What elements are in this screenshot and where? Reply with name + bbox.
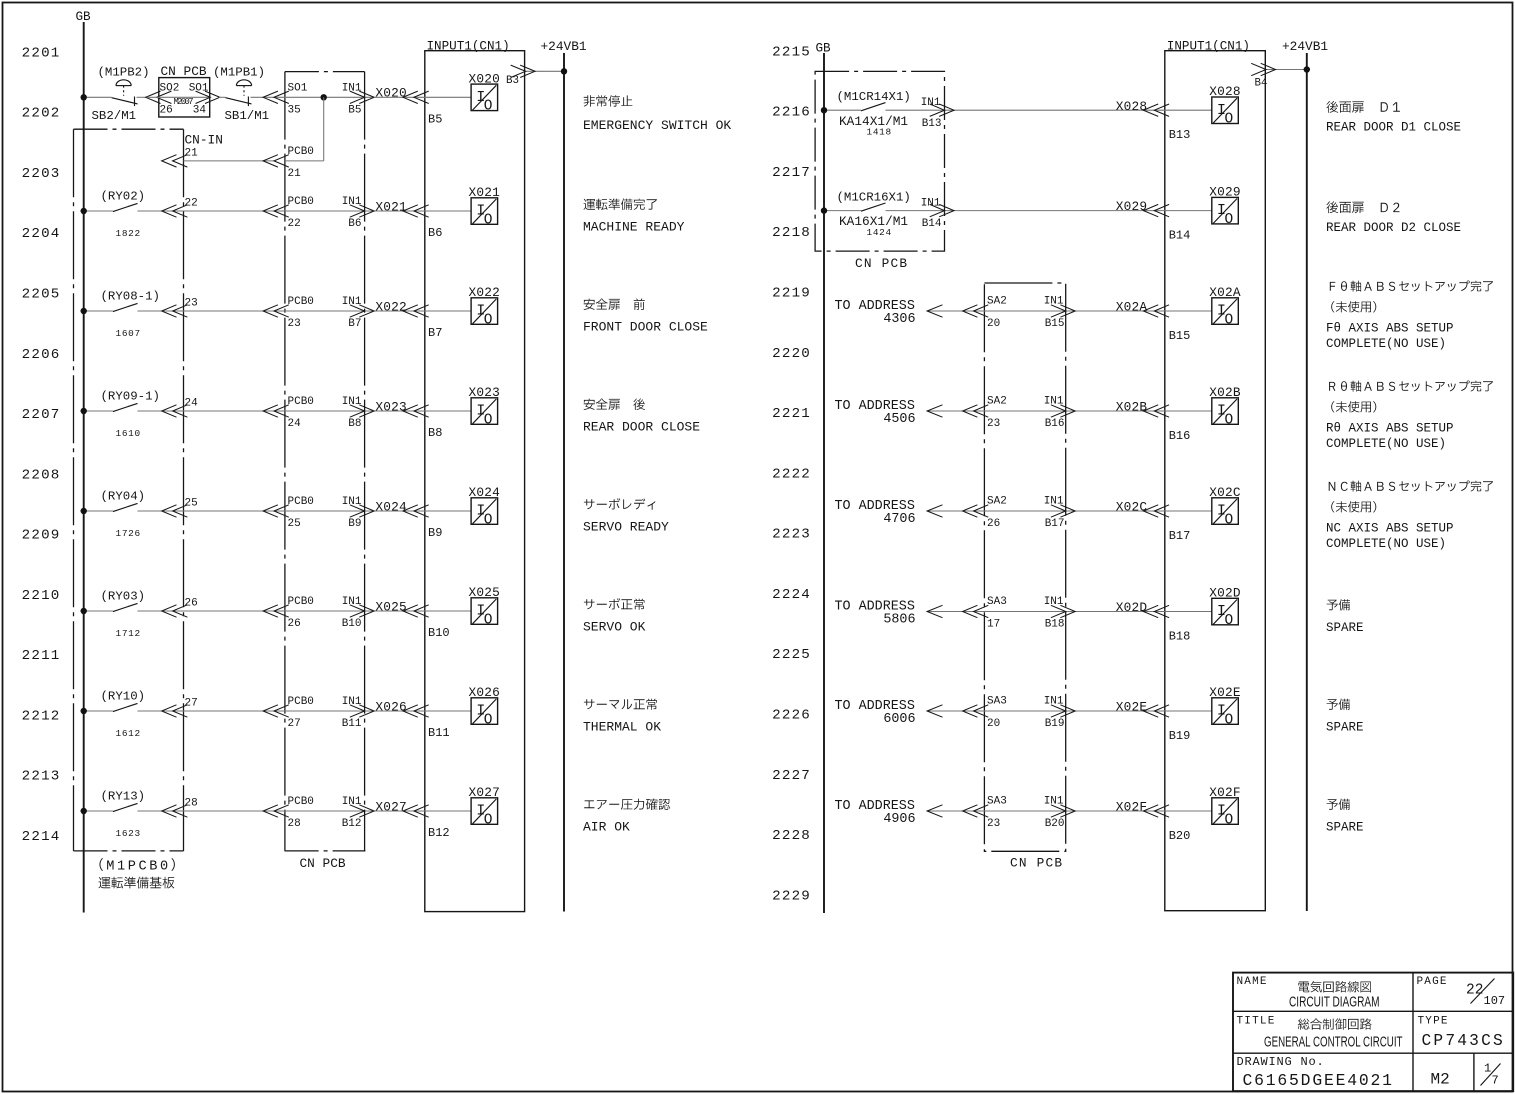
- connector pin PCB0 27: [263, 705, 289, 717]
- svg-text:27: 27: [185, 697, 198, 709]
- relay contact (RY08-1): [113, 303, 138, 311]
- wire X026 run: [138, 710, 472, 712]
- svg-text:IN1: IN1: [342, 496, 362, 508]
- svg-text:26: 26: [288, 618, 301, 630]
- svg-text:25: 25: [185, 497, 198, 509]
- svg-text:X02D: X02D: [1209, 586, 1241, 601]
- svg-text:2210: 2210: [22, 588, 61, 604]
- svg-text:21: 21: [185, 147, 199, 159]
- junction GB X026: [81, 708, 87, 714]
- connector pin B12 (INPUT1 edge): [403, 805, 429, 817]
- connector pin SO1/34 (box right edge): [196, 91, 220, 103]
- label JP X02A (未使用): [1331, 301, 1376, 312]
- svg-text:B11: B11: [428, 726, 450, 740]
- svg-text:2223: 2223: [772, 527, 811, 543]
- svg-text:24: 24: [185, 397, 199, 409]
- svg-text:20: 20: [987, 318, 1000, 330]
- svg-text:B13: B13: [922, 118, 942, 130]
- svg-text:1424: 1424: [867, 227, 892, 238]
- svg-text:4906: 4906: [883, 812, 915, 827]
- svg-text:34: 34: [193, 105, 207, 117]
- svg-text:21: 21: [288, 168, 302, 180]
- svg-text:B17: B17: [1045, 518, 1065, 530]
- connector pin SA2/26: [963, 505, 989, 517]
- svg-text:B15: B15: [1045, 318, 1065, 330]
- svg-text:X027: X027: [469, 785, 501, 800]
- svg-text:NC AXIS ABS SETUP: NC AXIS ABS SETUP: [1326, 522, 1454, 536]
- input point X02D I/O symbol: [1212, 598, 1239, 629]
- svg-text:B6: B6: [428, 226, 442, 240]
- label JP X022: [584, 299, 645, 311]
- PCB block CN PCB right (dash-dot box): [815, 71, 944, 251]
- connector pin B5 (INPUT1 edge): [403, 91, 429, 103]
- input point X024 I/O symbol: [471, 498, 498, 529]
- connector column PCB0 (dash-dot): [284, 72, 286, 851]
- junction GB X023: [81, 408, 87, 414]
- svg-text:X02F: X02F: [1209, 785, 1241, 800]
- svg-text:B7: B7: [348, 318, 361, 330]
- svg-text:X02B: X02B: [1209, 385, 1241, 400]
- input point X029 I/O symbol: [1212, 197, 1239, 228]
- connector pin SA3/17: [963, 605, 989, 617]
- relay contact (M1CR16X1): [861, 203, 886, 211]
- svg-text:28: 28: [185, 797, 198, 809]
- svg-text:SA3: SA3: [987, 796, 1007, 808]
- svg-text:2215: 2215: [772, 44, 811, 60]
- svg-text:X024: X024: [375, 499, 407, 514]
- svg-text:107: 107: [1484, 994, 1506, 1008]
- svg-text:1610: 1610: [116, 428, 141, 439]
- connector pin B17 (INPUT1 edge): [1143, 505, 1169, 517]
- svg-text:X022: X022: [469, 285, 501, 300]
- svg-text:2228: 2228: [772, 828, 811, 844]
- svg-text:B5: B5: [428, 112, 442, 126]
- relay contact (RY04): [113, 503, 138, 511]
- svg-text:O: O: [484, 712, 493, 728]
- label TO ADDRESS 4906: [835, 799, 916, 827]
- connector pin CN-IN 25: [162, 505, 188, 517]
- svg-text:INPUT1(CN1): INPUT1(CN1): [1167, 39, 1250, 53]
- svg-text:O: O: [484, 612, 493, 628]
- input point X02C I/O symbol: [1212, 498, 1239, 529]
- connector pin B19 (INPUT1 edge): [1143, 705, 1169, 717]
- svg-text:2202: 2202: [22, 106, 61, 122]
- svg-text:COMPLETE(NO USE): COMPLETE(NO USE): [1326, 537, 1446, 551]
- wire row X02A: [927, 310, 1212, 312]
- connector pin IN1/B7: [350, 305, 374, 317]
- input point X02F I/O symbol: [1212, 798, 1239, 829]
- svg-text:2220: 2220: [772, 346, 811, 362]
- label 非常停止: [584, 95, 633, 107]
- svg-text:B4: B4: [1255, 78, 1268, 90]
- wire inside CN PCB box: [147, 96, 210, 98]
- svg-text:B3: B3: [506, 75, 519, 87]
- svg-text:M2007: M2007: [174, 97, 194, 107]
- svg-text:7: 7: [1492, 1074, 1499, 1088]
- svg-text:2218: 2218: [772, 225, 811, 241]
- svg-text:B16: B16: [1169, 429, 1191, 443]
- svg-text:PCB0: PCB0: [288, 396, 314, 408]
- svg-text:SO2: SO2: [160, 82, 180, 94]
- svg-text:26: 26: [160, 105, 173, 117]
- label TO ADDRESS 5806: [835, 600, 916, 628]
- title PAGE cell: [1417, 976, 1506, 1008]
- svg-text:Rθ AXIS ABS SETUP: Rθ AXIS ABS SETUP: [1326, 422, 1454, 436]
- input point X028 I/O symbol: [1212, 97, 1239, 128]
- title block frame: [1233, 973, 1513, 1092]
- svg-text:X02A: X02A: [1209, 285, 1241, 300]
- svg-text:B19: B19: [1045, 718, 1065, 730]
- svg-text:2207: 2207: [22, 407, 61, 423]
- svg-text:X027: X027: [375, 799, 407, 814]
- svg-text:23: 23: [987, 418, 1000, 430]
- arrow to address 4506: [927, 405, 942, 417]
- svg-text:SPARE: SPARE: [1326, 721, 1364, 735]
- wire X027 run: [138, 810, 472, 812]
- input point X021 I/O symbol: [471, 198, 498, 229]
- connector column IN1 (dash-dot): [364, 72, 366, 851]
- svg-text:O: O: [1225, 512, 1234, 528]
- label JP X02F 予備: [1327, 799, 1350, 810]
- connector pin CN-IN 22: [162, 205, 188, 217]
- svg-text:INPUT1(CN1): INPUT1(CN1): [427, 39, 510, 53]
- svg-text:IN1: IN1: [342, 796, 362, 808]
- svg-text:2225: 2225: [772, 647, 811, 663]
- label JP X028: [1326, 101, 1400, 113]
- label JP X027: [584, 799, 670, 811]
- svg-text:4306: 4306: [883, 312, 915, 327]
- connector pin IN1/B10: [350, 605, 374, 617]
- svg-text:PCB0: PCB0: [288, 146, 314, 158]
- wire row X02B: [927, 410, 1212, 412]
- svg-text:B12: B12: [428, 826, 450, 840]
- svg-text:(RY09-1): (RY09-1): [101, 390, 161, 404]
- svg-text:NAME: NAME: [1237, 976, 1268, 988]
- connector pin B7 (INPUT1 edge): [403, 305, 429, 317]
- svg-text:IN1: IN1: [342, 696, 362, 708]
- connector pin IN1/B19 (SA edge): [1051, 705, 1075, 717]
- svg-text:2221: 2221: [772, 406, 811, 422]
- connector pin B16 (INPUT1 edge): [1143, 405, 1169, 417]
- wire row X02F: [927, 810, 1212, 812]
- svg-text:REAR DOOR D2 CLOSE: REAR DOOR D2 CLOSE: [1326, 221, 1461, 235]
- svg-text:B8: B8: [428, 426, 442, 440]
- svg-text:B10: B10: [342, 618, 362, 630]
- wire X021 run: [138, 210, 472, 212]
- label JP X02A line1: [1330, 281, 1493, 292]
- input point X027 I/O symbol: [471, 798, 498, 829]
- svg-text:(RY04): (RY04): [101, 490, 146, 504]
- input point X023 I/O symbol: [471, 398, 498, 429]
- connector pin CN-IN 27: [162, 705, 188, 717]
- wire X028 run: [886, 109, 1212, 111]
- svg-text:2214: 2214: [22, 829, 61, 845]
- svg-text:22: 22: [1466, 983, 1483, 999]
- svg-text:THERMAL OK: THERMAL OK: [583, 720, 661, 735]
- connector pin B18 (INPUT1 edge): [1143, 605, 1169, 617]
- label TO ADDRESS 4306: [835, 299, 916, 327]
- wire row X024 from GB bus: [84, 510, 113, 512]
- svg-text:GENERAL CONTROL CIRCUIT: GENERAL CONTROL CIRCUIT: [1264, 1034, 1403, 1051]
- svg-text:IN1: IN1: [1044, 296, 1064, 308]
- connector pin IN1/B8: [350, 405, 374, 417]
- title sheet 1/7 cell: [1481, 1062, 1501, 1088]
- svg-text:X024: X024: [469, 485, 501, 500]
- svg-text:X025: X025: [375, 599, 407, 614]
- svg-text:2204: 2204: [22, 226, 61, 242]
- svg-text:1: 1: [1484, 1062, 1491, 1076]
- svg-text:X026: X026: [375, 699, 407, 714]
- svg-text:SB1/M1: SB1/M1: [225, 109, 270, 123]
- svg-text:X021: X021: [469, 185, 501, 200]
- svg-text:B14: B14: [1169, 229, 1191, 243]
- svg-text:X02E: X02E: [1116, 700, 1148, 715]
- svg-text:B18: B18: [1169, 630, 1191, 644]
- svg-text:(RY13): (RY13): [101, 790, 146, 804]
- svg-text:CN-IN: CN-IN: [185, 133, 223, 148]
- svg-text:TITLE: TITLE: [1237, 1015, 1276, 1027]
- svg-text:O: O: [484, 812, 493, 828]
- arrow to address 4306: [927, 305, 942, 317]
- svg-text:1607: 1607: [116, 328, 141, 339]
- label JP X02E 予備: [1327, 699, 1350, 710]
- wire B3 to +24VB1: [525, 70, 564, 72]
- svg-text:DRAWING No.: DRAWING No.: [1237, 1055, 1325, 1069]
- svg-text:IN1: IN1: [1044, 696, 1064, 708]
- relay contact (M1CR14X1): [861, 103, 886, 111]
- svg-text:23: 23: [987, 818, 1000, 830]
- svg-text:1418: 1418: [867, 126, 892, 137]
- wire row X026 from GB bus: [84, 710, 113, 712]
- svg-text:COMPLETE(NO USE): COMPLETE(NO USE): [1326, 437, 1446, 451]
- svg-text:GB: GB: [76, 10, 92, 24]
- svg-text:X026: X026: [469, 685, 501, 700]
- connector pin B9 (INPUT1 edge): [403, 505, 429, 517]
- connector column CN-IN (dash-dot): [183, 129, 185, 851]
- svg-text:GB: GB: [816, 42, 832, 56]
- label JP X02C (未使用): [1331, 501, 1376, 512]
- connector pin SA2/20: [963, 305, 989, 317]
- connector pin IN1/B16 (SA edge): [1051, 405, 1075, 417]
- svg-text:X02D: X02D: [1116, 600, 1148, 615]
- svg-text:(M1CR14X1): (M1CR14X1): [837, 90, 911, 104]
- input point X02E I/O symbol: [1212, 698, 1239, 729]
- wire row X02D: [927, 611, 1212, 613]
- svg-text:2208: 2208: [22, 467, 61, 483]
- svg-text:2222: 2222: [772, 466, 811, 482]
- svg-text:M2: M2: [1431, 1070, 1450, 1088]
- label JP X023: [584, 398, 645, 410]
- svg-text:25: 25: [288, 518, 301, 530]
- svg-text:IN1: IN1: [342, 396, 362, 408]
- wire X029 run: [886, 210, 1212, 212]
- svg-text:REAR DOOR CLOSE: REAR DOOR CLOSE: [583, 420, 700, 435]
- connector pin IN1/B18 (SA edge): [1051, 605, 1075, 617]
- svg-text:O: O: [1225, 412, 1234, 428]
- svg-text:(M1PB2): (M1PB2): [98, 66, 150, 80]
- junction GB X028: [821, 107, 827, 113]
- right line numbers 2215-2229: [772, 44, 811, 904]
- connector pin B11 (INPUT1 edge): [403, 705, 429, 717]
- label JP X02D 予備: [1327, 599, 1350, 610]
- svg-text:IN1: IN1: [1044, 396, 1064, 408]
- svg-text:O: O: [484, 312, 493, 328]
- svg-text:CP743CS: CP743CS: [1422, 1032, 1505, 1050]
- svg-text:SA2: SA2: [987, 296, 1007, 308]
- svg-text:X020: X020: [469, 71, 501, 86]
- svg-text:IN1: IN1: [342, 296, 362, 308]
- svg-text:IN1: IN1: [921, 97, 941, 109]
- svg-text:EMERGENCY SWITCH OK: EMERGENCY SWITCH OK: [583, 118, 731, 133]
- svg-text:CIRCUIT DIAGRAM: CIRCUIT DIAGRAM: [1289, 994, 1380, 1011]
- svg-text:X025: X025: [469, 585, 501, 600]
- svg-text:IN1: IN1: [1044, 596, 1064, 608]
- net GB (right bus): [823, 53, 825, 913]
- svg-text:(M1PB1): (M1PB1): [213, 66, 265, 80]
- svg-text:O: O: [1225, 812, 1234, 828]
- junction GB X025: [81, 608, 87, 614]
- input point X02B I/O symbol: [1212, 398, 1239, 429]
- connector pin PCB0 22: [263, 205, 289, 217]
- svg-text:O: O: [484, 512, 493, 528]
- svg-text:X02C: X02C: [1209, 485, 1241, 500]
- relay contact (RY09-1): [113, 403, 138, 411]
- svg-text:(RY03): (RY03): [101, 590, 146, 604]
- net +24VB1 (left): [563, 53, 565, 912]
- connector INPUT1(CN1) right block: [1165, 51, 1266, 911]
- svg-text:B20: B20: [1169, 829, 1191, 843]
- wire row X022 from GB bus: [84, 310, 113, 312]
- svg-text:X02F: X02F: [1116, 800, 1148, 815]
- connector pin IN1/B13 (CN PCB edge): [930, 104, 954, 116]
- label JP X02B line1: [1329, 381, 1493, 392]
- svg-text:SERVO OK: SERVO OK: [583, 620, 646, 635]
- svg-text:(RY08-1): (RY08-1): [101, 290, 161, 304]
- connector pin B4: [1251, 63, 1275, 75]
- svg-text:SA3: SA3: [987, 596, 1007, 608]
- connector pin PCB0 28: [263, 805, 289, 817]
- actuator M1PB1 mushroom head: [236, 80, 251, 96]
- svg-text:B9: B9: [428, 526, 442, 540]
- pushbutton SB2/M1 (M1PB2): [112, 97, 138, 107]
- wire row X021 from GB bus: [84, 210, 113, 212]
- connector pin PCB0 23: [263, 305, 289, 317]
- svg-text:X023: X023: [469, 385, 501, 400]
- wire SB2 to CN PCB box: [137, 96, 147, 98]
- svg-text:SA3: SA3: [987, 696, 1007, 708]
- label JP X02B (未使用): [1331, 401, 1376, 412]
- svg-text:X028: X028: [1116, 99, 1148, 114]
- connector pin IN1/B20 (SA edge): [1051, 805, 1075, 817]
- svg-text:2211: 2211: [22, 648, 61, 664]
- svg-text:26: 26: [185, 597, 198, 609]
- wire X020 into INPUT1 block: [374, 96, 471, 98]
- junction GB X027: [81, 808, 87, 814]
- input point X025 I/O symbol: [471, 598, 498, 629]
- svg-text:PCB0: PCB0: [288, 496, 314, 508]
- wire B4 to +24VB1: [1265, 69, 1307, 71]
- label JP X021: [584, 198, 657, 210]
- svg-text:1726: 1726: [116, 528, 141, 539]
- relay contact (RY10): [113, 703, 138, 711]
- svg-text:24: 24: [288, 418, 302, 430]
- svg-text:（M1PCB0）: （M1PCB0）: [90, 859, 187, 875]
- connector pin B15 (INPUT1 edge): [1143, 305, 1169, 317]
- svg-text:B6: B6: [348, 218, 361, 230]
- svg-text:SERVO READY: SERVO READY: [583, 520, 669, 535]
- svg-text:B8: B8: [348, 418, 361, 430]
- svg-text:+24VB1: +24VB1: [1282, 39, 1328, 54]
- svg-text:X028: X028: [1209, 84, 1241, 99]
- relay contact (RY03): [113, 603, 138, 611]
- svg-text:X029: X029: [1209, 185, 1241, 200]
- svg-text:MACHINE READY: MACHINE READY: [583, 220, 685, 235]
- svg-text:4706: 4706: [883, 512, 915, 527]
- svg-text:22: 22: [288, 218, 301, 230]
- junction GB X021: [81, 208, 87, 214]
- svg-text:1822: 1822: [116, 228, 141, 239]
- connector INPUT1(CN1) left block: [425, 51, 525, 912]
- net GB (left bus): [83, 22, 85, 913]
- svg-text:C6165DGEE4021: C6165DGEE4021: [1243, 1071, 1394, 1090]
- svg-text:PCB0: PCB0: [288, 796, 314, 808]
- svg-text:SPARE: SPARE: [1326, 821, 1364, 835]
- connector pin CN-IN 26: [162, 605, 188, 617]
- label TO ADDRESS 6006: [835, 699, 916, 727]
- CN PCB relay box on row 2202: [159, 78, 210, 117]
- svg-text:B20: B20: [1045, 818, 1065, 830]
- arrow to address 5806: [927, 605, 942, 617]
- svg-text:2216: 2216: [772, 105, 811, 121]
- title TYPE cell: [1418, 1015, 1505, 1049]
- junction GB X024: [81, 508, 87, 514]
- svg-text:B12: B12: [342, 818, 362, 830]
- connector pin CN-IN 21: [162, 155, 188, 167]
- svg-text:2229: 2229: [772, 888, 811, 904]
- connector pin IN1/B6: [350, 205, 374, 217]
- title TITLE cell: [1237, 1015, 1403, 1050]
- connector pin B10 (INPUT1 edge): [403, 605, 429, 617]
- relay contact (RY13): [113, 803, 138, 811]
- svg-text:CN PCB: CN PCB: [1010, 856, 1063, 871]
- wire X022 run: [138, 310, 472, 312]
- svg-text:23: 23: [288, 318, 301, 330]
- junction GB X022: [81, 308, 87, 314]
- svg-text:(RY10): (RY10): [101, 690, 146, 704]
- wire row X02E: [927, 710, 1212, 712]
- svg-text:SA2: SA2: [987, 396, 1007, 408]
- svg-text:2201: 2201: [22, 45, 61, 61]
- svg-text:O: O: [484, 212, 493, 228]
- connector pin SO2/26 (box left edge): [146, 91, 172, 103]
- svg-text:REAR DOOR D1 CLOSE: REAR DOOR D1 CLOSE: [1326, 121, 1461, 135]
- connector pin IN1/B12: [350, 805, 374, 817]
- svg-text:IN1: IN1: [1044, 496, 1064, 508]
- label TO ADDRESS 4706: [835, 499, 916, 527]
- connector pin SA3/20: [963, 705, 989, 717]
- actuator M1PB2 mushroom head: [116, 80, 131, 96]
- svg-text:PCB0: PCB0: [288, 696, 314, 708]
- svg-text:X021: X021: [375, 199, 407, 214]
- svg-text:SA2: SA2: [987, 496, 1007, 508]
- wire row X025 from GB bus: [84, 610, 113, 612]
- svg-text:X020: X020: [375, 86, 407, 101]
- svg-text:2224: 2224: [772, 587, 811, 603]
- svg-text:2226: 2226: [772, 708, 811, 724]
- wire X024 run: [138, 510, 472, 512]
- input point X02A I/O symbol: [1212, 298, 1239, 329]
- junction GB X029: [821, 207, 827, 213]
